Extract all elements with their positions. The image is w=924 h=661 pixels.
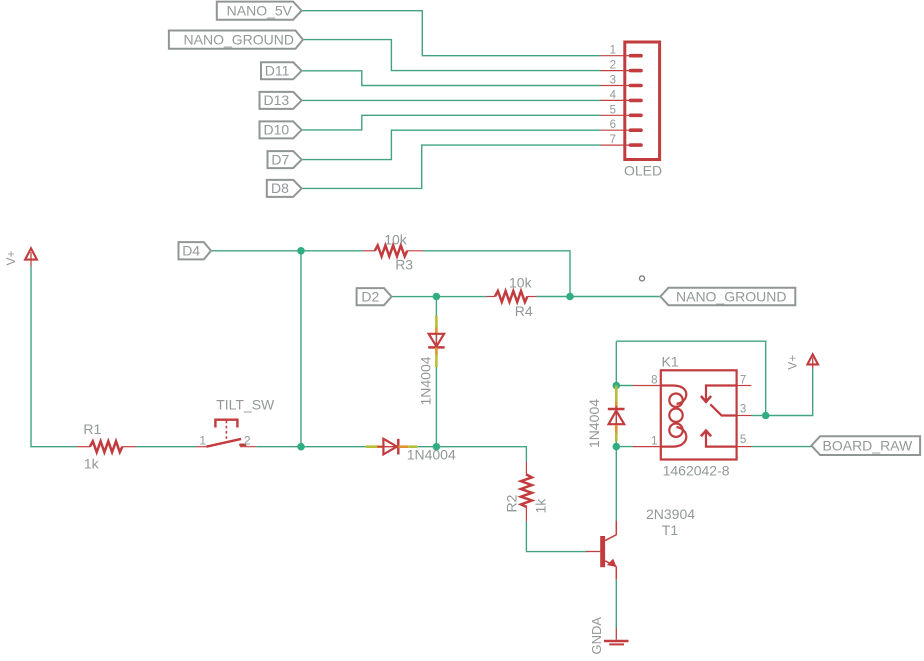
svg-text:V+: V+ [4, 250, 18, 265]
svg-text:2: 2 [610, 60, 616, 72]
svg-text:5: 5 [610, 104, 616, 116]
svg-text:2: 2 [244, 434, 251, 448]
svg-text:D11: D11 [265, 63, 290, 79]
svg-text:10k: 10k [384, 232, 408, 248]
svg-text:10k: 10k [509, 275, 533, 291]
svg-text:BOARD_RAW: BOARD_RAW [823, 437, 914, 453]
svg-text:OLED: OLED [624, 163, 662, 179]
svg-text:K1: K1 [662, 354, 679, 370]
svg-text:1: 1 [651, 435, 657, 447]
svg-text:D4: D4 [182, 243, 200, 259]
svg-text:1462042-8: 1462042-8 [663, 463, 730, 479]
svg-text:1N4004: 1N4004 [418, 356, 434, 405]
svg-text:GNDA: GNDA [589, 617, 604, 655]
svg-text:R4: R4 [515, 303, 533, 319]
svg-text:R3: R3 [395, 257, 413, 273]
svg-text:7: 7 [610, 134, 616, 146]
svg-text:1N4004: 1N4004 [586, 399, 602, 448]
svg-text:3: 3 [610, 75, 616, 87]
svg-text:1: 1 [610, 45, 616, 57]
svg-text:3: 3 [740, 403, 746, 415]
svg-text:D10: D10 [264, 122, 290, 138]
svg-text:TILT_SW: TILT_SW [216, 397, 275, 413]
svg-text:1: 1 [199, 434, 206, 448]
svg-text:D2: D2 [361, 288, 379, 304]
svg-text:R2: R2 [504, 494, 520, 512]
svg-text:2N3904: 2N3904 [646, 506, 695, 522]
svg-text:1k: 1k [84, 456, 100, 472]
svg-text:NANO_GROUND: NANO_GROUND [184, 31, 294, 47]
svg-text:NANO_5V: NANO_5V [227, 3, 293, 19]
svg-text:NANO_GROUND: NANO_GROUND [676, 288, 786, 304]
svg-text:5: 5 [740, 434, 746, 446]
svg-text:6: 6 [610, 119, 616, 131]
svg-text:R1: R1 [83, 421, 101, 437]
svg-text:V+: V+ [786, 355, 800, 370]
svg-text:8: 8 [651, 374, 657, 386]
svg-text:7: 7 [740, 374, 746, 386]
svg-text:D13: D13 [264, 92, 290, 108]
svg-text:1k: 1k [533, 498, 549, 514]
svg-text:T1: T1 [662, 522, 679, 538]
svg-text:D8: D8 [271, 180, 289, 196]
svg-text:D7: D7 [271, 151, 289, 167]
svg-text:4: 4 [610, 89, 617, 101]
svg-text:1N4004: 1N4004 [407, 447, 456, 463]
